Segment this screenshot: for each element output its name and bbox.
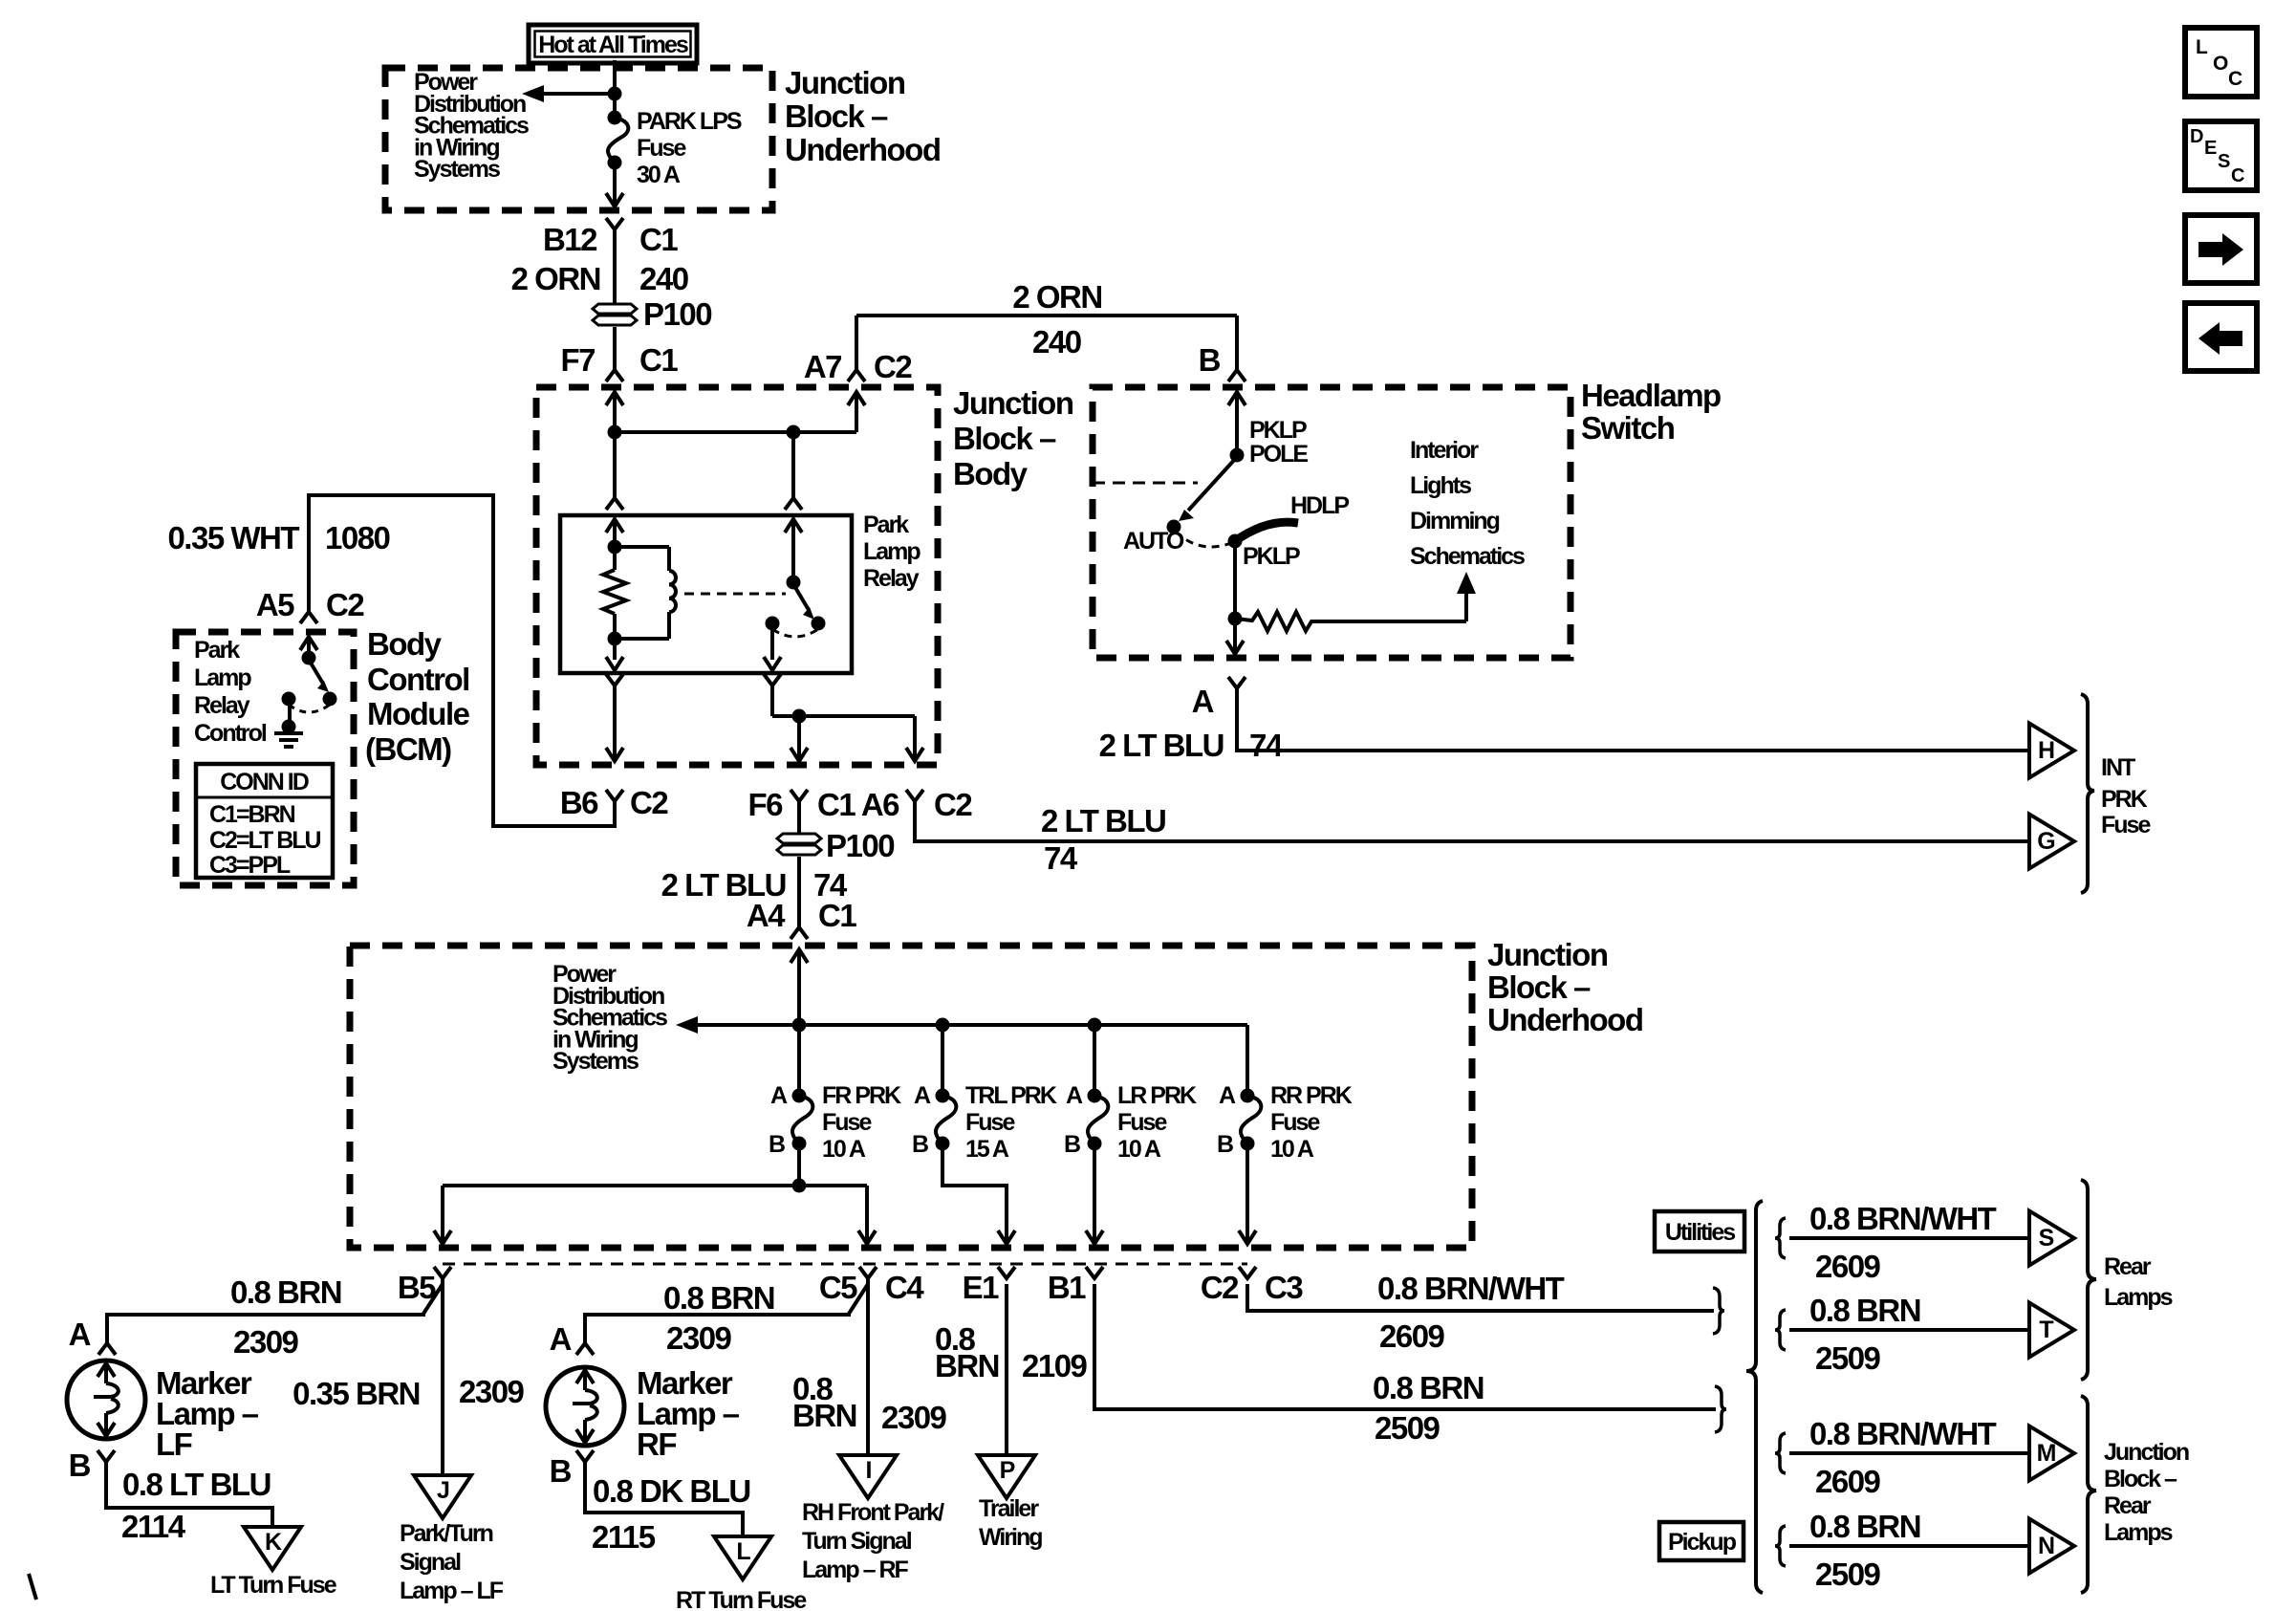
svg-text:A: A [1192,684,1214,719]
svg-text:0.8 BRN: 0.8 BRN [663,1280,774,1316]
label Trailer Wiring [979,1495,1042,1551]
connector F7/C1 (into JB-Body) [560,342,678,381]
wire: A7 riser [848,392,865,432]
svg-text:Park: Park [194,637,240,664]
svg-text:A: A [770,1082,788,1109]
nav button previous (left arrow) [2185,303,2257,371]
connector L (RT Turn Fuse) [714,1536,771,1579]
svg-text:BRN: BRN [935,1348,999,1383]
wire 2309 BRN: B5 to marker lamp LF [107,1278,443,1343]
label box Pickup [1659,1522,1744,1560]
wire label 0.8 BRN / 2509 (row N) [1809,1509,1920,1592]
svg-text:B: B [1064,1131,1080,1158]
wire: switched feed into relay [785,432,802,582]
node PKLP contact [1228,534,1301,571]
svg-text:F7: F7 [560,342,595,378]
wire: RR PRK output to C2 [1239,1143,1256,1244]
svg-text:LR PRK: LR PRK [1117,1082,1197,1109]
svg-text:Body: Body [367,626,443,662]
wire label 0.8 BRN / 2309 (RF) [663,1280,774,1356]
svg-text:B: B [69,1448,91,1483]
svg-text:C1: C1 [639,342,678,378]
wire: relay common output [764,623,915,724]
lamp Marker Lamp - RF [546,1367,624,1446]
label INT PRK Fuse [2101,754,2151,838]
wire 2115 DK BLU to RT Turn Fuse [585,1462,743,1536]
pin label PKLP POLE [1249,417,1308,468]
wire: battery feed into PARK LPS fuse [608,60,622,118]
wire 74 LT BLU from switch to INT PRK fuse H [1237,688,2029,751]
svg-text:Lights: Lights [1410,472,1471,499]
wire: LR PRK riser [1093,1025,1096,1096]
svg-text:Control: Control [194,720,267,747]
wire: LR PRK output to B1 [1086,1143,1103,1244]
relay switch (armature) [766,576,826,638]
label Park Lamp Relay [863,512,921,592]
brace Junction Block - Rear Lamps [2081,1396,2096,1593]
branch bracket (row M) [1775,1433,1786,1473]
svg-text:Signal: Signal [400,1549,461,1576]
branch bracket (row S) [1775,1218,1786,1258]
node AUTO position [1123,528,1184,555]
dashed travel line (switch detent) [1093,482,1198,485]
splice end bracket (B1 run) [1715,1386,1726,1432]
svg-text:Lamp – LF: Lamp – LF [400,1578,504,1604]
pin A/B labels (FR PRK) [769,1082,788,1158]
svg-text:2 LT BLU: 2 LT BLU [1041,803,1165,838]
splice brace (harness split) [1746,1201,1763,1593]
wire: arrow to Power Distribution Schematics [522,85,615,102]
svg-text:TRL PRK: TRL PRK [965,1082,1057,1109]
svg-text:AUTO: AUTO [1123,528,1184,555]
svg-text:2309: 2309 [459,1374,525,1409]
svg-text:30 A: 30 A [637,162,681,188]
svg-text:0.8 DK BLU: 0.8 DK BLU [593,1473,750,1509]
junction block JB-Underhood (lower) dashed enclosure [350,946,1472,1248]
connector J (Park/Turn Signal Lamp - LF) [414,1475,471,1518]
wire label 2 ORN / 240 (horizontal run) [1012,279,1101,359]
value label TRL PRK Fuse 15 A [965,1082,1057,1163]
svg-text:A7: A7 [804,349,841,384]
wire 2309 BRN: C4 to RH front park/turn signal lamp [866,1284,870,1455]
svg-text:Wiring: Wiring [979,1524,1042,1551]
svg-text:RF: RF [637,1426,676,1462]
svg-text:LF: LF [156,1426,192,1462]
label box Utilities [1655,1211,1744,1252]
svg-text:LT Turn Fuse: LT Turn Fuse [210,1572,337,1599]
svg-text:G: G [2037,828,2054,855]
switch Headlamp Switch dashed enclosure [1093,387,1570,658]
note: Power Distribution Schematics in Wiring Systems (top) [414,69,529,183]
wire 2509 BRN: B1 run to rear splice [1094,1284,1716,1409]
wire label 2 LT BLU 74 (switch output) [1099,728,1284,763]
wire: F6 drop [791,716,808,761]
svg-text:C2: C2 [934,787,972,822]
wire label 0.8 BRN / 2109 [935,1321,1088,1383]
wire 240 ORN segment to P100 [613,229,617,304]
svg-text:B6: B6 [560,785,598,820]
svg-text:CONN ID: CONN ID [220,769,309,795]
svg-text:RT Turn Fuse: RT Turn Fuse [676,1587,807,1611]
nav button next (right arrow) [2185,215,2257,283]
svg-text:P100: P100 [643,296,711,332]
connector A7/C2 (JB-Body top) [804,316,913,384]
svg-text:B: B [769,1131,785,1158]
connector E1 [963,1267,1015,1305]
svg-text:Lamps: Lamps [2104,1519,2173,1546]
svg-text:C1: C1 [818,898,856,933]
svg-text:0.8 BRN: 0.8 BRN [1373,1370,1484,1405]
CONN ID table [196,764,333,879]
svg-text:E: E [2204,138,2217,159]
label Marker Lamp - LF [156,1365,259,1462]
svg-text:Underhood: Underhood [1487,1002,1642,1037]
svg-text:Rear: Rear [2104,1253,2152,1280]
svg-text:L: L [736,1538,750,1565]
svg-text:Block –: Block – [785,98,888,134]
connector B6/C2 (JB-Body to BCM) [560,785,669,820]
svg-text:74: 74 [1044,840,1078,876]
connector N [2029,1519,2074,1574]
svg-text:Block –: Block – [2104,1466,2177,1492]
svg-text:RH Front Park/: RH Front Park/ [802,1499,944,1526]
svg-text:Turn Signal: Turn Signal [802,1528,912,1555]
svg-text:A: A [69,1317,91,1352]
svg-text:Junction: Junction [953,385,1073,421]
wire label 0.8 DK BLU / 2115 [592,1473,750,1555]
svg-text:B1: B1 [1048,1270,1086,1305]
svg-text:C1: C1 [639,222,678,257]
inline connector P100 (lower) [777,828,894,863]
junction block JB-Underhood (top) dashed enclosure [385,68,772,210]
svg-text:Interior: Interior [1410,437,1479,464]
fuse TRL PRK 15 A [936,1089,957,1151]
svg-text:C2: C2 [326,587,364,622]
svg-text:Body: Body [953,456,1029,491]
svg-text:T: T [2039,1317,2053,1343]
svg-text:Module: Module [367,696,470,731]
svg-text:Fuse: Fuse [965,1109,1015,1136]
svg-text:PRK: PRK [2101,786,2148,813]
svg-text:Fuse: Fuse [1117,1109,1167,1136]
svg-text:10 A: 10 A [822,1136,866,1163]
svg-text:Fuse: Fuse [822,1109,872,1136]
svg-text:2 ORN: 2 ORN [511,261,600,296]
svg-text:0.8 BRN/WHT: 0.8 BRN/WHT [1377,1271,1565,1306]
connector S [2029,1211,2074,1266]
svg-text:PKLP: PKLP [1243,543,1300,570]
pin A/B labels (LR PRK) [1064,1082,1083,1158]
svg-text:Systems: Systems [552,1048,639,1075]
svg-text:Fuse: Fuse [1270,1109,1320,1136]
connector P (Trailer Wiring) [978,1455,1035,1498]
connector A4/C1 (into lower JB-Underhood) [747,898,857,939]
svg-text:2109: 2109 [1022,1348,1088,1383]
svg-text:C2=LT BLU: C2=LT BLU [209,827,321,854]
stray tick mark (bottom left) [29,1574,36,1600]
connector B (headlamp switch input) [1199,342,1245,381]
svg-text:C: C [2228,68,2242,90]
connector C2/C3 [1201,1267,1304,1305]
wire from P100 to F7 [613,327,617,370]
connector A5/C2 (BCM input) [256,587,365,623]
relay Park Lamp Relay (enclosure) [560,515,852,673]
wire label 0.35 WHT 1080 [167,520,389,555]
wire 2609 0.8 BRN/WHT (row M) [1789,1451,2029,1455]
wire: F7 feed inside JB-Body [606,392,623,498]
nav button DESC [2185,121,2257,190]
fuse LR PRK 10 A [1088,1089,1109,1151]
wire: FR PRK output split to B5 and C5 [434,1143,876,1244]
svg-text:1080: 1080 [325,520,390,555]
svg-text:240: 240 [1032,324,1081,359]
connector B5 [398,1267,451,1305]
wire: PKLP contact down to output [1226,541,1244,655]
label Junction Block - Underhood (lower) [1487,937,1642,1037]
connector H (to INT PRK fuse) [2029,724,2074,778]
connector K (LT Turn Fuse) [244,1527,301,1570]
svg-text:2509: 2509 [1375,1410,1440,1446]
svg-text:B12: B12 [543,222,597,257]
svg-text:INT: INT [2101,754,2135,781]
branch bracket (row N) [1775,1526,1786,1566]
connector A (marker lamp LF) [69,1317,116,1355]
svg-text:Junction: Junction [785,65,905,100]
value label RR PRK Fuse 10 A [1270,1082,1353,1163]
svg-text:Block –: Block – [953,421,1056,456]
svg-text:C1: C1 [817,787,856,822]
svg-text:74: 74 [1249,728,1284,763]
switch wiper arm (to AUTO) [1167,457,1238,534]
label RH Front Park/Turn Signal Lamp - RF [802,1499,944,1583]
svg-text:O: O [2213,53,2228,75]
wire: A4 feed into distribution bus [791,949,808,1096]
wire label 0.8 BRN / 2309 (LF) [230,1274,341,1360]
svg-text:HDLP: HDLP [1290,492,1349,519]
wire label 0.8 BRN / 2509 (row T) [1809,1293,1920,1376]
svg-text:S: S [2039,1225,2054,1252]
svg-text:A6: A6 [861,787,899,822]
svg-text:Relay: Relay [194,692,250,719]
svg-text:2309: 2309 [666,1320,732,1356]
node HDLP position [1290,492,1349,519]
wire 2114 LT BLU to LT Turn Fuse [106,1462,272,1527]
fuse PARK LPS 30 A [608,111,629,170]
label Junction Block - Rear Lamps [2104,1439,2189,1546]
wire: internal bus to A7 [615,425,856,440]
wire 1080 WHT: B6 to BCM A5 [309,495,615,826]
module BCM dashed enclosure [176,632,354,885]
svg-text:0.8 BRN: 0.8 BRN [1809,1509,1920,1544]
svg-text:0.35 BRN: 0.35 BRN [292,1376,420,1411]
pin A/B labels (RR PRK) [1217,1082,1236,1158]
connector I (RH Front Park/Turn Signal Lamp - RF) [839,1455,897,1498]
nav button LOC [2185,28,2257,97]
wire 2509 0.8 BRN (row N) [1789,1544,2029,1548]
connector T [2029,1303,2074,1358]
dashed arc AUTO to PKLP [1176,532,1231,547]
relay coil ground-side pin (bottom) [606,674,623,761]
lamp Marker Lamp - LF [67,1361,145,1439]
value label LR PRK Fuse 10 A [1117,1082,1197,1163]
svg-text:A: A [914,1082,931,1109]
svg-text:L: L [2196,36,2208,58]
svg-text:Park: Park [863,512,909,538]
wire: P100 to A4 [797,857,801,927]
svg-text:Systems: Systems [414,156,500,183]
wire 2609 0.8 BRN/WHT (row S) [1789,1236,2029,1240]
label Junction Block - Body [953,385,1073,491]
thick detent arc to HDLP [1235,522,1298,541]
junction block JB-Body dashed enclosure [536,387,938,765]
svg-text:2115: 2115 [592,1519,656,1555]
svg-text:Schematics: Schematics [1410,543,1525,570]
svg-text:POLE: POLE [1249,441,1308,468]
label LT Turn Fuse [210,1572,337,1599]
wire: A6 drop [906,716,923,761]
svg-text:Fuse: Fuse [2101,812,2151,838]
svg-text:Control: Control [367,662,469,697]
svg-text:Relay: Relay [863,565,920,592]
resistor (interior lights dimming feed) [1235,612,1466,631]
svg-text:C5: C5 [819,1270,857,1305]
wire: TRL PRK riser [941,1025,944,1096]
svg-text:0.8 LT BLU: 0.8 LT BLU [122,1467,271,1502]
relay coil feed connector (relay pin, left) [606,498,623,533]
svg-text:Headlamp: Headlamp [1581,378,1721,413]
inline connector P100 (upper) [593,296,711,332]
inductor coil (relay winding) [615,547,676,639]
label Headlamp Switch [1581,378,1721,446]
svg-text:2309: 2309 [233,1324,299,1360]
splice end bracket (C3 run) [1713,1288,1724,1334]
svg-text:K: K [265,1529,282,1556]
svg-text:A: A [550,1321,572,1357]
connector G (to INT PRK fuse) [2029,815,2074,869]
wire 2109 BRN: E1 to trailer wiring [1005,1284,1008,1455]
svg-text:E1: E1 [963,1270,1000,1305]
wire: F6 to P100 (lower) [797,801,801,834]
connector C5/C4 [819,1267,925,1305]
connector B12/C1 (JB-Underhood output) [543,218,678,257]
svg-text:C2: C2 [1201,1270,1239,1305]
svg-text:2609: 2609 [1379,1318,1445,1354]
wire 2609 BRN/WHT: C3 run to rear splice [1247,1284,1714,1311]
svg-text:C3=PPL: C3=PPL [209,852,291,879]
svg-text:2114: 2114 [121,1509,186,1544]
svg-text:2509: 2509 [1815,1340,1881,1376]
note: Power Distribution Schematics in Wiring Systems (lower) [552,961,667,1075]
resistor (relay suppression) [603,570,626,614]
connector B1 [1048,1267,1103,1305]
wire label 0.8 BRN/WHT / 2609 (row S) [1809,1201,1997,1284]
wire: fuse output to JB bottom edge [606,163,623,207]
svg-text:J: J [437,1477,449,1504]
connector A (marker lamp RF) [550,1321,594,1357]
svg-text:H: H [2038,737,2054,764]
label Rear Lamps [2104,1253,2173,1311]
svg-text:15 A: 15 A [965,1136,1009,1163]
svg-text:P: P [1000,1457,1015,1484]
wire label 0.8 BRN/WHT / 2609 (row M) [1809,1416,1997,1499]
svg-text:Lamp: Lamp [194,664,251,691]
wire 2 ORN 240 to headlamp switch [856,316,1237,370]
dashed mechanical link coil-to-switch [684,593,786,596]
brace Rear Lamps [2081,1180,2096,1380]
wire 2309 BRN: B5 to park/turn signal lamp LF [441,1284,444,1475]
value label PARK LPS Fuse 30 A [637,108,742,188]
ground (BCM park lamp relay control) [274,699,303,747]
svg-text:2 LT BLU: 2 LT BLU [1099,728,1224,763]
fuse RR PRK 10 A [1241,1089,1262,1151]
inline harness connector (dashed) below JB [443,1263,1247,1266]
svg-text:0.8 BRN: 0.8 BRN [1809,1293,1920,1328]
label Park Lamp Relay Control [194,637,267,747]
wire label 2 LT BLU 74 (A6 run) [1041,803,1165,876]
svg-text:PARK LPS: PARK LPS [637,108,742,135]
svg-text:Lamp: Lamp [863,538,921,565]
svg-text:A: A [1066,1082,1083,1109]
wire label 0.8 LT BLU / 2114 [121,1467,271,1544]
svg-text:C: C [2231,165,2244,186]
svg-text:A5: A5 [256,587,294,622]
svg-text:10 A: 10 A [1270,1136,1314,1163]
svg-text:PKLP: PKLP [1249,417,1307,444]
label Body Control Module (BCM) [365,626,470,767]
svg-text:0.8 BRN/WHT: 0.8 BRN/WHT [1809,1201,1997,1236]
wire label 0.8 BRN/WHT / 2609 (C3 run) [1377,1271,1565,1354]
brace INT PRK Fuse [2081,694,2094,893]
wire label 2 LT BLU 74 (P100 drop) [661,867,848,903]
svg-text:B: B [1217,1131,1233,1158]
svg-text:F6: F6 [747,787,783,822]
relay coil branch junction [608,519,622,570]
svg-text:C2: C2 [630,785,668,820]
wire: TRL PRK output to E1 [942,1143,1015,1244]
label Marker Lamp - RF [637,1365,740,1462]
svg-text:Fuse: Fuse [637,135,686,162]
svg-text:2 ORN: 2 ORN [1012,279,1101,315]
wire: B into switch pole [1228,392,1245,463]
wire label 2 ORN 240 [511,261,688,296]
wire 74 LT BLU from A6 to INT PRK fuse G [915,801,2029,841]
fuse FR PRK 10 A [792,1089,813,1151]
svg-text:Lamp – RF: Lamp – RF [802,1557,909,1583]
svg-text:240: 240 [639,261,688,296]
svg-text:Switch: Switch [1581,410,1675,446]
power label "Hot at All Times" [529,25,697,63]
svg-text:C3: C3 [1265,1270,1303,1305]
svg-text:2609: 2609 [1815,1464,1881,1499]
svg-text:0.8 BRN: 0.8 BRN [230,1274,341,1310]
wire: distribution bus with arrow to power distribution [676,1016,1247,1034]
svg-text:Hot at All Times: Hot at All Times [538,32,688,58]
svg-text:A4: A4 [747,898,786,933]
svg-text:B: B [1199,342,1221,378]
connector B (marker lamp RF) [550,1450,594,1489]
svg-text:(BCM): (BCM) [365,731,451,767]
svg-text:Trailer: Trailer [979,1495,1039,1522]
pin A/B labels (TRL PRK) [912,1082,931,1158]
svg-text:Park/Turn: Park/Turn [400,1520,493,1547]
svg-text:RR PRK: RR PRK [1270,1082,1353,1109]
wire 2309 BRN: C5 to marker lamp RF [585,1278,868,1343]
BCM driver switch [282,637,337,712]
svg-text:B: B [550,1453,572,1489]
wire label 0.8 BRN / 2509 (B1 run) [1373,1370,1484,1446]
svg-text:0.8 BRN/WHT: 0.8 BRN/WHT [1809,1416,1997,1451]
svg-text:C1=BRN: C1=BRN [209,801,295,828]
